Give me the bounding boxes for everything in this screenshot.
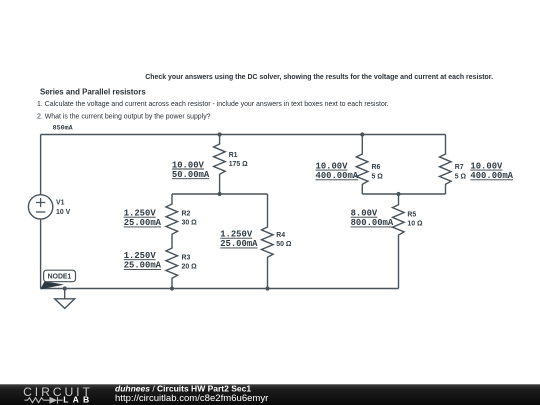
resistor R1: [214, 135, 226, 195]
resistor R3: [166, 241, 178, 289]
logo resistor-diode glyph: [25, 397, 63, 404]
measurement R7 10.00V 400.00mA: [470, 161, 513, 181]
svg-text:NODE1: NODE1: [48, 274, 72, 281]
measurement R6 10.00V 400.00mA: [316, 161, 359, 181]
label R4 / 50 ohm: [276, 232, 292, 248]
wire: left vertical above V1: [40, 135, 42, 195]
measurement R2 1.250V 25.00mA: [124, 209, 162, 229]
wire: middle-right rail: [362, 193, 445, 195]
svg-text:R1: R1: [229, 152, 238, 159]
svg-text:duhnees / Circuits HW Part2 Se: duhnees / Circuits HW Part2 Sec1: [115, 383, 251, 393]
svg-text:5 Ω: 5 Ω: [372, 174, 384, 181]
svg-text:http://circuitlab.com/c8e2fm6u: http://circuitlab.com/c8e2fm6u6emyr: [115, 393, 269, 404]
wire: bottom rail: [41, 288, 399, 290]
resistor R5: [393, 194, 405, 289]
svg-text:20 Ω: 20 Ω: [182, 264, 198, 271]
label R5 / 10 ohm: [407, 211, 423, 227]
junction ground: [63, 286, 67, 290]
node NODE1 flag: [40, 270, 75, 289]
svg-text:50 Ω: 50 Ω: [276, 241, 292, 248]
resistor R4: [262, 194, 274, 289]
junction R1 top: [218, 132, 222, 136]
measurement R5 8.00V 800.00mA: [351, 209, 394, 229]
svg-text:850mA: 850mA: [53, 125, 74, 133]
svg-text:LAB: LAB: [63, 395, 93, 405]
resistor R2: [166, 194, 178, 241]
wire: top rail: [41, 134, 446, 136]
resistor R7: [440, 135, 452, 195]
svg-text:10 Ω: 10 Ω: [407, 221, 423, 228]
measurement R1 10.00V 50.00mA: [172, 160, 210, 180]
svg-text:1. Calculate the voltage and c: 1. Calculate the voltage and current acr…: [37, 101, 389, 108]
label R6 / 5 ohm: [372, 164, 384, 180]
label R7 / 5 ohm: [455, 164, 467, 180]
ground symbol: [55, 289, 75, 309]
svg-text:R2: R2: [182, 210, 191, 217]
svg-text:30 Ω: 30 Ω: [182, 220, 198, 227]
junction R1 bottom: [218, 192, 222, 196]
svg-text:10 V: 10 V: [56, 209, 71, 216]
label R1 / 175 ohm: [229, 152, 248, 168]
resistor R6: [356, 135, 368, 195]
svg-text:R7: R7: [455, 164, 464, 171]
wire: middle-left rail: [172, 193, 268, 195]
junction R6 top: [360, 132, 364, 136]
svg-text:R3: R3: [182, 254, 191, 261]
wire: left vertical below V1: [40, 219, 42, 288]
junction R5 top: [396, 192, 400, 196]
svg-text:Check your answers using the D: Check your answers using the DC solver, …: [145, 74, 493, 81]
junction R4 bottom: [265, 286, 269, 290]
svg-text:5 Ω: 5 Ω: [455, 174, 467, 181]
svg-text:R4: R4: [276, 232, 285, 239]
label R3 / 20 ohm: [182, 254, 198, 270]
svg-text:2. What is the current being o: 2. What is the current being output by t…: [37, 114, 211, 121]
svg-text:175 Ω: 175 Ω: [229, 161, 248, 168]
svg-text:Series and Parallel resistors: Series and Parallel resistors: [40, 88, 146, 97]
junction R3 bottom: [170, 286, 174, 290]
voltage source V1: [28, 195, 52, 219]
measurement R4 1.250V 25.00mA: [220, 230, 258, 250]
label R2 / 30 ohm: [182, 210, 198, 226]
measurement R3 1.250V 25.00mA: [124, 251, 162, 271]
svg-text:V1: V1: [56, 200, 65, 207]
svg-text:R5: R5: [407, 211, 416, 218]
svg-text:R6: R6: [372, 164, 381, 171]
label V1 / 10 V: [56, 200, 71, 216]
